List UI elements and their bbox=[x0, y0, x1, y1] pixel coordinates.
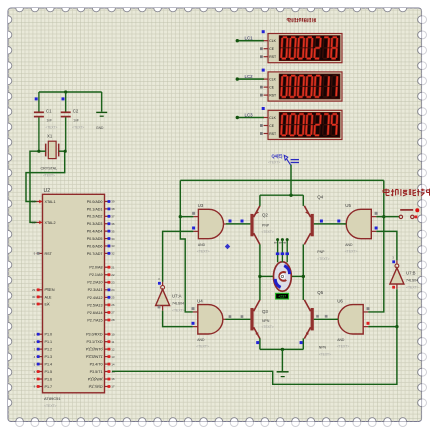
U7:B output marker bbox=[392, 286, 395, 289]
svg-text:<TEXT>: <TEXT> bbox=[72, 126, 84, 130]
wire U7:B output down to junction bbox=[396, 289, 398, 326]
probe marker blue diamond bbox=[225, 244, 230, 249]
svg-text:<TEXT>: <TEXT> bbox=[345, 249, 358, 253]
svg-text:1nF: 1nF bbox=[73, 119, 79, 123]
svg-text:CE: CE bbox=[269, 86, 274, 90]
svg-text:11: 11 bbox=[111, 340, 114, 344]
ground symbol H-bridge bbox=[277, 371, 289, 373]
svg-text:29: 29 bbox=[32, 288, 36, 292]
svg-text:<TEXT>: <TEXT> bbox=[262, 325, 274, 329]
wire Q2 emitter down to motor left node bbox=[259, 244, 261, 276]
7-seg counter display LC2 bbox=[236, 69, 342, 102]
node U6.B junction bbox=[395, 325, 398, 328]
node crystal left bbox=[37, 150, 40, 153]
svg-text:AND: AND bbox=[345, 243, 353, 247]
transistor Q2 PNP bbox=[250, 206, 273, 245]
junction bbox=[302, 275, 305, 278]
svg-text:24: 24 bbox=[111, 288, 115, 292]
7-seg counter display LC1 bbox=[236, 30, 342, 63]
MCU right pins P2 bbox=[87, 265, 115, 322]
svg-text:C1: C1 bbox=[46, 109, 52, 114]
svg-text:<TEXT>: <TEXT> bbox=[197, 249, 210, 253]
wire U7:A output to U4.B bbox=[163, 311, 193, 327]
svg-text:EA: EA bbox=[45, 302, 50, 306]
wire Q5 emitter to bottom rail bbox=[302, 338, 304, 349]
ground symbol near crystal bbox=[96, 92, 107, 130]
node switch junction bbox=[289, 194, 292, 197]
switch Q4(E) bbox=[268, 154, 299, 166]
svg-text:RST: RST bbox=[269, 55, 276, 59]
svg-text:C2: C2 bbox=[73, 109, 79, 114]
crystal X1 bbox=[41, 134, 59, 178]
svg-text:XTAL2: XTAL2 bbox=[45, 221, 56, 225]
svg-text:P2.3/A11: P2.3/A11 bbox=[88, 288, 103, 292]
wire motor left node to Q3 collector bbox=[259, 276, 261, 300]
svg-text:P2.2/A10: P2.2/A10 bbox=[87, 281, 102, 285]
U7:A output marker bbox=[158, 306, 161, 309]
svg-text:8: 8 bbox=[278, 242, 282, 244]
inverter U7:B triangle bbox=[390, 256, 404, 289]
capacitor C1 bbox=[34, 92, 58, 151]
svg-text:28: 28 bbox=[111, 318, 115, 322]
wire U3.B to U7:A input bbox=[163, 231, 194, 281]
svg-text:U2: U2 bbox=[44, 188, 51, 194]
svg-text:74LS04: 74LS04 bbox=[172, 302, 184, 306]
motor M (DC motor with encoder) bbox=[258, 262, 305, 291]
marker Q3 base 2 bbox=[241, 315, 244, 318]
svg-text:LC3: LC3 bbox=[245, 113, 254, 118]
svg-text:CRYSTAL: CRYSTAL bbox=[41, 167, 58, 171]
svg-text:P0.4/AD4: P0.4/AD4 bbox=[87, 230, 103, 234]
wire junction down then bottom run to MCU P3.5 bbox=[112, 327, 397, 385]
svg-text:P2.6/A14: P2.6/A14 bbox=[87, 311, 102, 315]
wire rail down to U3.A bbox=[179, 180, 181, 216]
svg-text:GND: GND bbox=[96, 126, 104, 130]
svg-text:ALE: ALE bbox=[45, 295, 53, 299]
svg-text:P3.1/TXD: P3.1/TXD bbox=[87, 340, 103, 344]
svg-text:P2.5/A13: P2.5/A13 bbox=[87, 303, 102, 307]
svg-text:CLK: CLK bbox=[269, 39, 276, 43]
svg-text:<TEXT>: <TEXT> bbox=[172, 309, 185, 313]
wire U5.B to U7:B input bbox=[376, 231, 397, 260]
node crystal right bbox=[64, 150, 67, 153]
svg-text:<TEXT>: <TEXT> bbox=[46, 126, 58, 130]
svg-text:<TEXT>: <TEXT> bbox=[262, 230, 274, 234]
svg-text:U5: U5 bbox=[345, 203, 351, 208]
transistor Q5 NPN bbox=[304, 290, 331, 357]
svg-text:18: 18 bbox=[32, 221, 36, 225]
node ground junction bbox=[281, 348, 284, 351]
marker Q5 base 2 bbox=[325, 315, 328, 318]
svg-text:14: 14 bbox=[111, 362, 115, 366]
svg-text:P3.0/RXD: P3.0/RXD bbox=[86, 333, 103, 337]
svg-text:16: 16 bbox=[111, 377, 115, 381]
wire crystal left node to XTAL2 bbox=[39, 150, 46, 152]
AND gate U4 bbox=[192, 298, 226, 348]
svg-text:P1.4: P1.4 bbox=[45, 362, 53, 366]
title text 光电编码器测速 bbox=[287, 18, 291, 22]
svg-text:10: 10 bbox=[111, 332, 115, 336]
node U3.A junction bbox=[179, 215, 182, 218]
svg-text:P1.0: P1.0 bbox=[45, 333, 53, 337]
svg-text:19: 19 bbox=[32, 200, 36, 204]
svg-text:12: 12 bbox=[111, 347, 115, 351]
svg-text:31: 31 bbox=[32, 302, 36, 306]
svg-text:U6: U6 bbox=[337, 298, 343, 303]
svg-text:AT89C51: AT89C51 bbox=[44, 396, 61, 401]
svg-text:AND: AND bbox=[337, 338, 345, 342]
transistor Q3 NPN bbox=[250, 300, 273, 339]
svg-text:CE: CE bbox=[269, 124, 274, 128]
svg-text:34: 34 bbox=[111, 237, 115, 241]
marker Q2 base 1 bbox=[229, 220, 232, 223]
svg-text:RST: RST bbox=[269, 132, 276, 136]
marker Q3 base 1 bbox=[229, 315, 232, 318]
svg-text:Q4(E): Q4(E) bbox=[272, 154, 284, 159]
svg-text:P0.1/AD1: P0.1/AD1 bbox=[87, 207, 103, 211]
svg-text:XTAL1: XTAL1 bbox=[45, 200, 56, 204]
svg-text:<TEXT>: <TEXT> bbox=[319, 353, 331, 357]
svg-text:30: 30 bbox=[32, 295, 36, 299]
push button (motor enable) bbox=[399, 208, 419, 218]
marker Q5 base 1 bbox=[316, 315, 319, 318]
wire rail down to button junction and U6.A bbox=[368, 180, 384, 312]
MCU right pins P0 bbox=[87, 200, 115, 256]
svg-text:21: 21 bbox=[111, 265, 115, 269]
svg-text:U4: U4 bbox=[197, 298, 203, 303]
svg-text:U7:A: U7:A bbox=[172, 294, 182, 299]
svg-text:37: 37 bbox=[111, 215, 115, 219]
wire Q3 emitter to bottom rail bbox=[259, 338, 261, 349]
svg-text:Q4: Q4 bbox=[317, 194, 323, 199]
svg-text:17: 17 bbox=[111, 385, 115, 389]
svg-text:P3.2/INT0: P3.2/INT0 bbox=[86, 348, 103, 352]
svg-text:25: 25 bbox=[111, 296, 115, 300]
svg-text:<TEXT>: <TEXT> bbox=[317, 257, 329, 261]
svg-text:P2.7/A15: P2.7/A15 bbox=[87, 318, 102, 322]
node button junction bbox=[382, 215, 385, 218]
svg-text:36: 36 bbox=[111, 222, 115, 226]
wire U6.B to junction bbox=[368, 326, 397, 328]
svg-text:<TEXT>: <TEXT> bbox=[337, 345, 350, 349]
svg-text:8: 8 bbox=[283, 242, 287, 244]
wire long top rail (enable net) bbox=[180, 179, 383, 181]
svg-text:P3.3/INT1: P3.3/INT1 bbox=[86, 355, 103, 359]
svg-text:P1.7: P1.7 bbox=[45, 385, 53, 389]
svg-text:<TEXT>: <TEXT> bbox=[268, 161, 280, 165]
svg-text:U3: U3 bbox=[198, 203, 204, 208]
svg-text:<TEXT>: <TEXT> bbox=[196, 345, 209, 349]
marker Q4 base 1 bbox=[320, 220, 323, 223]
svg-text:P0.6/AD6: P0.6/AD6 bbox=[87, 244, 103, 248]
svg-text:P0.3/AD3: P0.3/AD3 bbox=[87, 222, 103, 226]
svg-text:NPN: NPN bbox=[262, 319, 270, 323]
svg-text:74LS04: 74LS04 bbox=[406, 279, 418, 283]
svg-text:P1.2: P1.2 bbox=[45, 348, 53, 352]
svg-text:27: 27 bbox=[111, 311, 115, 315]
wire U6 output to Q5 base bbox=[314, 318, 338, 320]
svg-text:Q2: Q2 bbox=[262, 212, 268, 217]
motor encoder wires bbox=[274, 238, 289, 262]
svg-text:RST: RST bbox=[269, 94, 276, 98]
svg-text:P1.3: P1.3 bbox=[45, 355, 53, 359]
junction bbox=[281, 238, 284, 241]
svg-text:<TEXT>: <TEXT> bbox=[43, 174, 55, 178]
svg-text:RST: RST bbox=[45, 252, 53, 256]
svg-text:CLK: CLK bbox=[269, 116, 276, 120]
marker Q5 emitter bbox=[300, 341, 303, 344]
svg-text:P2.1/A9: P2.1/A9 bbox=[89, 273, 102, 277]
MCU left pins bbox=[32, 200, 56, 389]
wire Q2 collector to rail bbox=[259, 195, 261, 206]
wire switch to rail bbox=[290, 165, 292, 196]
svg-text:P1.6: P1.6 bbox=[45, 377, 53, 381]
capacitor C2 bbox=[61, 92, 85, 151]
svg-text:CE: CE bbox=[269, 47, 274, 51]
svg-text:Q5: Q5 bbox=[317, 290, 323, 295]
svg-text:Q3: Q3 bbox=[262, 309, 268, 314]
svg-text:P1.5: P1.5 bbox=[45, 370, 53, 374]
svg-text:NPN: NPN bbox=[319, 346, 327, 350]
svg-text:26: 26 bbox=[111, 303, 115, 307]
node C2 top junction bbox=[64, 90, 67, 93]
svg-text:P0.7/AD7: P0.7/AD7 bbox=[87, 252, 103, 256]
junction bbox=[286, 238, 289, 241]
svg-text:23: 23 bbox=[111, 280, 115, 284]
MCU right pins P3 bbox=[86, 332, 115, 388]
svg-text:1nF: 1nF bbox=[47, 119, 53, 123]
wire rail to ground bbox=[281, 349, 283, 371]
svg-text:X1: X1 bbox=[47, 134, 53, 139]
wire bottom rail bbox=[260, 348, 303, 350]
svg-text:AND: AND bbox=[197, 338, 205, 342]
wire U5.A to button bbox=[376, 216, 399, 218]
svg-text:U7:B: U7:B bbox=[406, 271, 416, 276]
svg-text:P2.4/A12: P2.4/A12 bbox=[87, 296, 102, 300]
marker Q4 base 2 bbox=[337, 220, 340, 223]
svg-text:39: 39 bbox=[111, 200, 115, 204]
AND gate U5 (mirrored) bbox=[344, 203, 378, 253]
junction bbox=[276, 238, 279, 241]
svg-text:<TEXT>: <TEXT> bbox=[406, 286, 419, 290]
svg-text:35: 35 bbox=[111, 229, 115, 233]
label 电机使能按钮 bbox=[383, 189, 389, 196]
svg-text:38: 38 bbox=[111, 207, 115, 211]
svg-text:32: 32 bbox=[111, 252, 115, 256]
wire Q4 collector to rail bbox=[302, 195, 304, 206]
svg-text:P3.6/WR: P3.6/WR bbox=[88, 377, 103, 381]
svg-text:AND: AND bbox=[198, 243, 206, 247]
op-amp n/a : MCU U2 AT89C51 bbox=[43, 188, 105, 408]
AND gate U3 bbox=[192, 203, 226, 253]
svg-text:P0.5/AD5: P0.5/AD5 bbox=[87, 237, 103, 241]
svg-text:P3.7/RD: P3.7/RD bbox=[89, 385, 103, 389]
svg-text:P3.5/T1: P3.5/T1 bbox=[90, 370, 103, 374]
svg-text:P1.1: P1.1 bbox=[45, 340, 53, 344]
svg-text:LC2: LC2 bbox=[245, 74, 254, 79]
transistor Q4 PNP bbox=[304, 194, 329, 260]
svg-text:P2.0/A8: P2.0/A8 bbox=[89, 266, 102, 270]
svg-text:13: 13 bbox=[111, 355, 115, 359]
svg-text:P0.2/AD2: P0.2/AD2 bbox=[87, 215, 103, 219]
marker Q2 base 2 bbox=[241, 220, 244, 223]
wire Q4 emitter down to motor right node bbox=[302, 244, 304, 276]
svg-text:+237: +237 bbox=[278, 295, 286, 299]
junction bbox=[258, 275, 261, 278]
svg-text:PNP: PNP bbox=[262, 223, 270, 227]
svg-text:<TEXT>: <TEXT> bbox=[44, 404, 57, 408]
svg-text:LC1: LC1 bbox=[245, 36, 254, 41]
wire motor right node to Q5 collector bbox=[302, 276, 304, 300]
svg-text:33: 33 bbox=[111, 244, 115, 248]
svg-text:8: 8 bbox=[274, 242, 278, 244]
7-seg counter display LC3 bbox=[236, 107, 342, 140]
inverter U7:A triangle bbox=[156, 277, 170, 310]
svg-text:22: 22 bbox=[111, 273, 115, 277]
motor rpm readout green box bbox=[276, 293, 289, 299]
wire top rail of crystal circuit bbox=[39, 91, 102, 93]
svg-text:CLK: CLK bbox=[269, 78, 276, 82]
svg-text:P3.4/T0: P3.4/T0 bbox=[90, 362, 103, 366]
svg-text:P0.0/AD0: P0.0/AD0 bbox=[87, 200, 103, 204]
wire crystal right node to XTAL1 bbox=[59, 150, 65, 152]
wire U4 output to Q3 base bbox=[225, 318, 250, 320]
svg-text:PSEN: PSEN bbox=[45, 288, 55, 292]
wire U3 output to Q2 base bbox=[226, 223, 251, 225]
marker Q3 emitter bbox=[256, 341, 259, 344]
wire top rail of H-bridge bbox=[260, 194, 303, 196]
wire U5 output to Q4 base bbox=[314, 223, 346, 225]
svg-text:PNP: PNP bbox=[317, 250, 325, 254]
AND gate U6 (mirrored) bbox=[336, 298, 370, 348]
wire U3.A junction down to U4.A bbox=[180, 217, 193, 312]
